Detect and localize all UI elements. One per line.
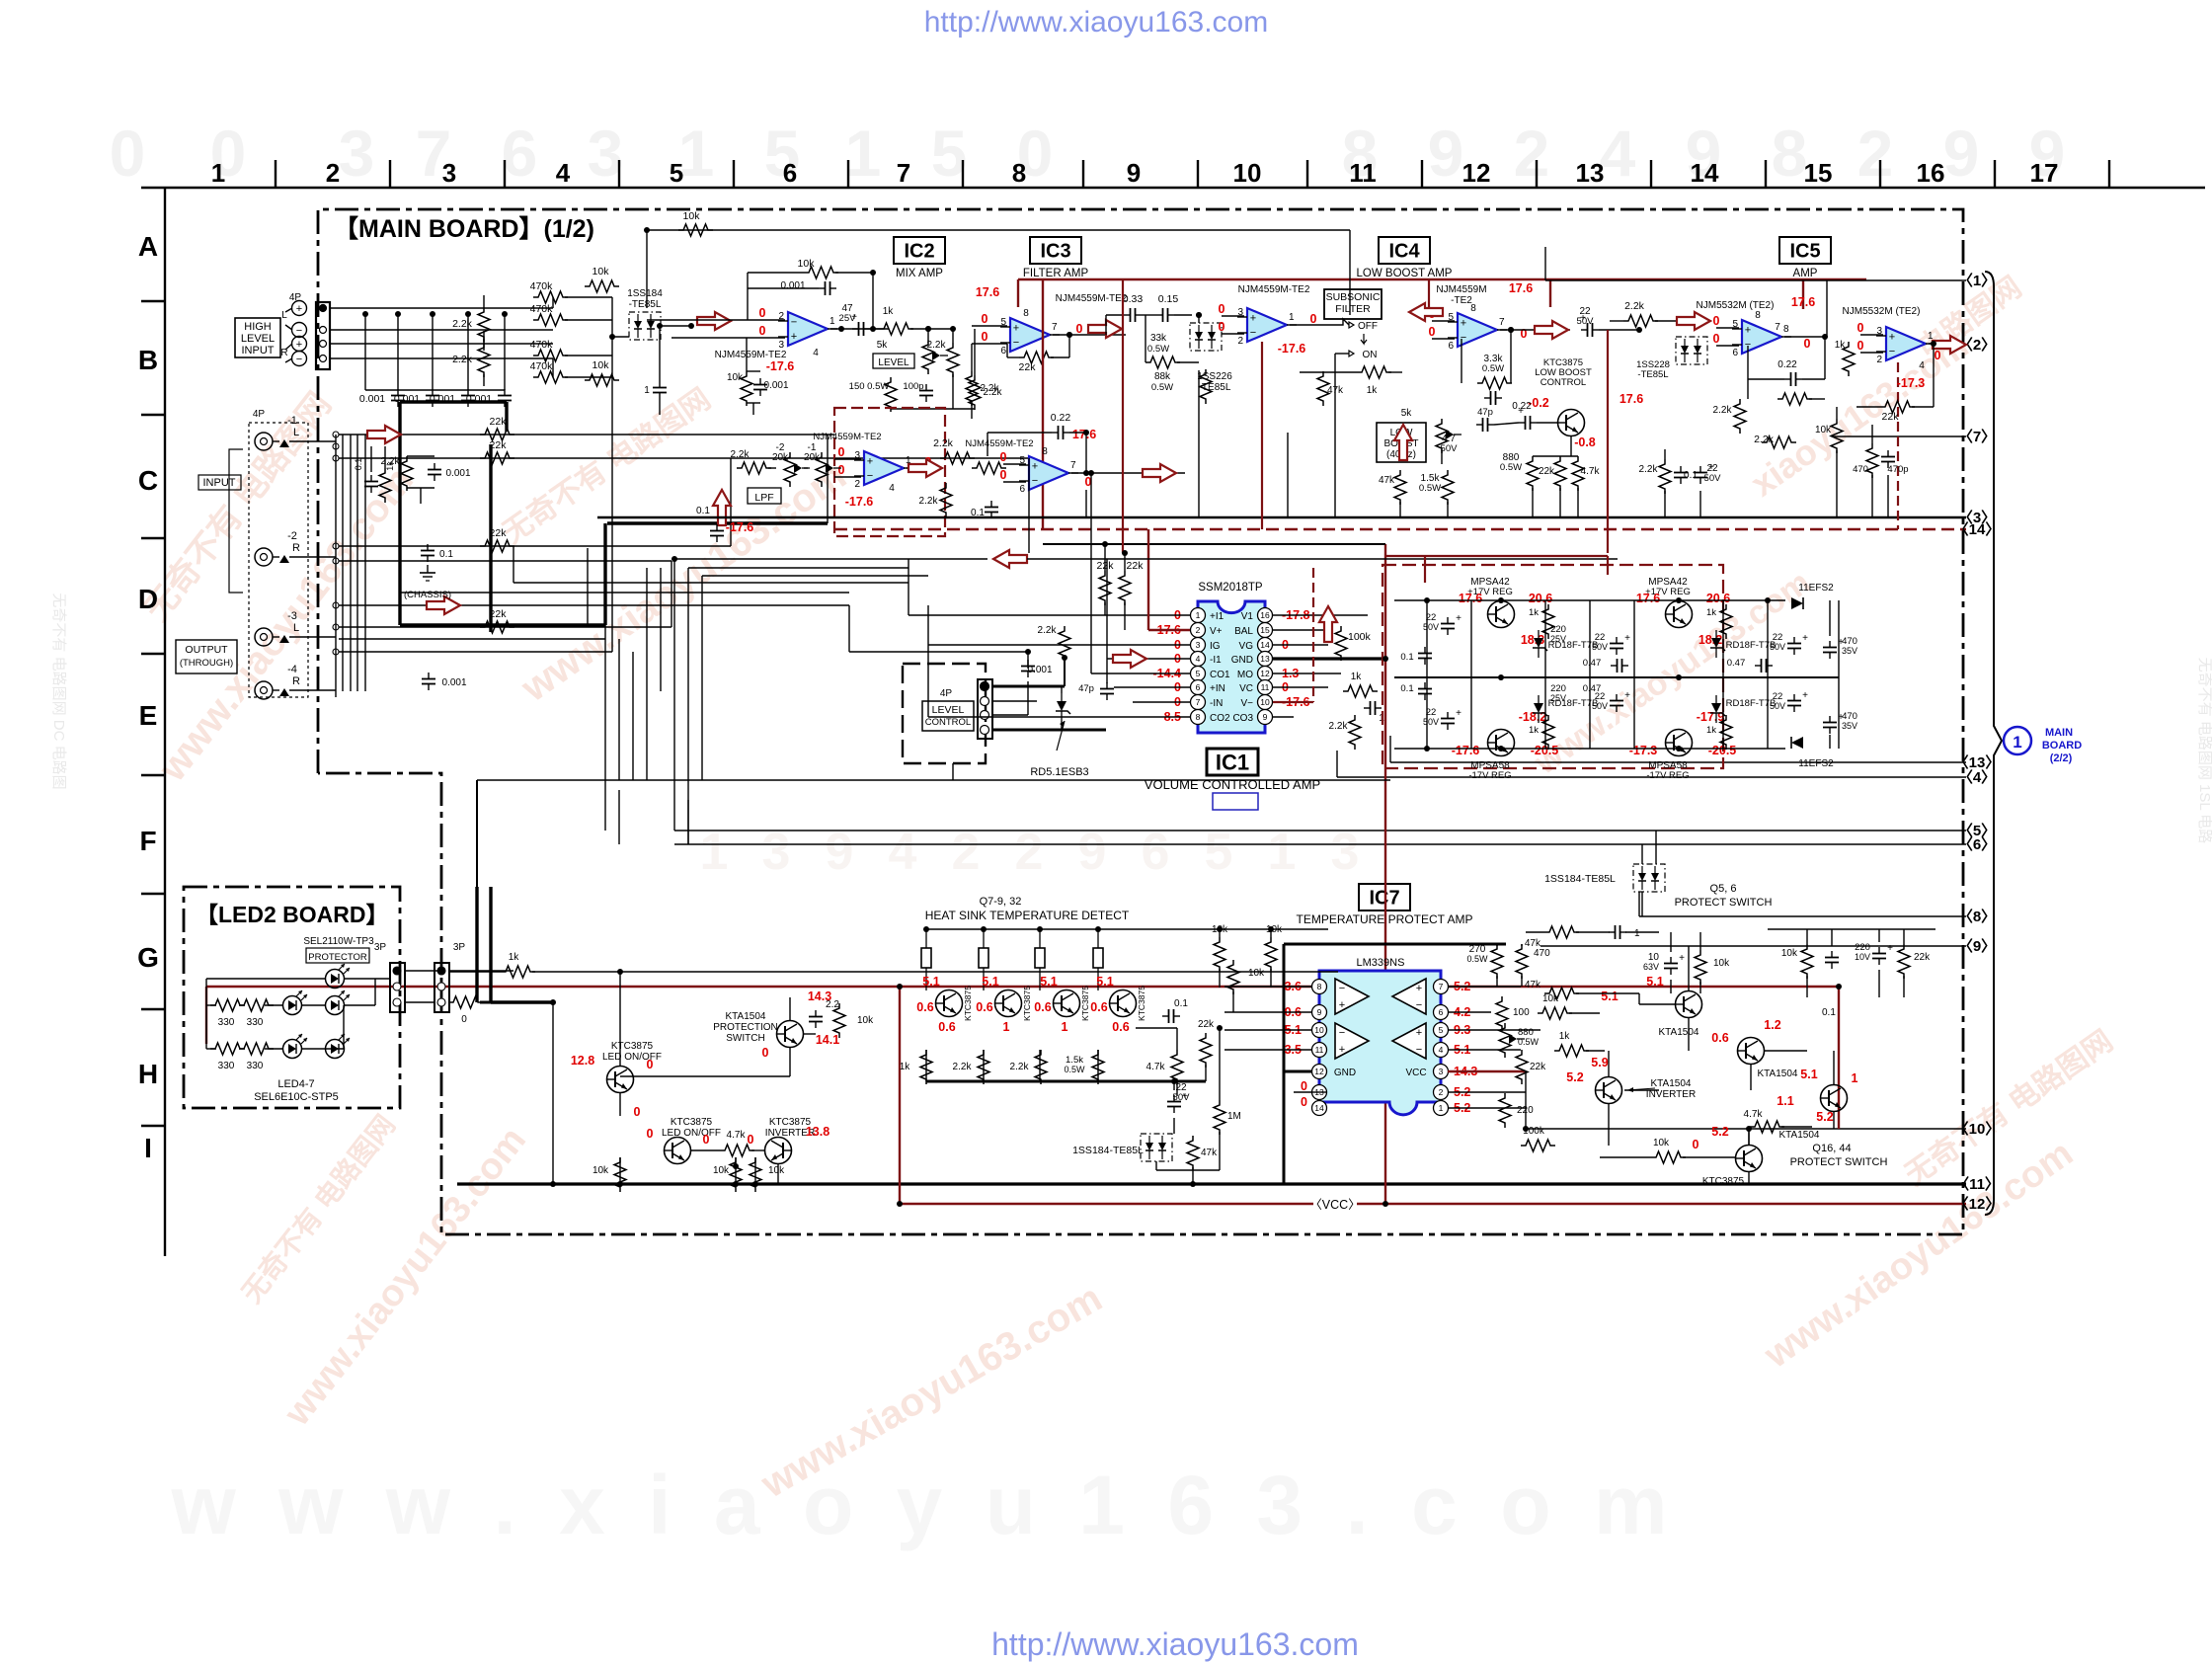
voltage label 0 bbox=[1174, 695, 1181, 709]
svg-text:1: 1 bbox=[211, 158, 225, 188]
wire bbox=[873, 328, 879, 330]
resistor 10k bbox=[1801, 944, 1813, 979]
svg-text:11: 11 bbox=[1315, 1045, 1324, 1055]
wire bbox=[619, 1093, 621, 1116]
svg-text:KTC3875: KTC3875 bbox=[1080, 986, 1090, 1021]
svg-text:5.9: 5.9 bbox=[1591, 1056, 1608, 1069]
wire bbox=[687, 568, 689, 800]
svg-text:2.2k: 2.2k bbox=[927, 340, 947, 351]
wire bbox=[747, 273, 749, 320]
transistor KTC3875 inverter bbox=[765, 1138, 792, 1164]
signal arrow bbox=[427, 596, 460, 614]
svg-text:1k: 1k bbox=[1351, 672, 1363, 682]
svg-text:SEL2110W-TP3: SEL2110W-TP3 bbox=[303, 936, 374, 947]
header pin bbox=[333, 649, 339, 655]
capacitor 22/50V bbox=[1447, 617, 1449, 624]
svg-text:〈7〉: 〈7〉 bbox=[1958, 428, 1996, 445]
junction bbox=[733, 1181, 739, 1187]
svg-text:4: 4 bbox=[556, 158, 571, 188]
svg-text:LEVEL: LEVEL bbox=[241, 333, 275, 345]
svg-text:47k: 47k bbox=[1525, 980, 1541, 990]
wire bbox=[1222, 315, 1244, 317]
wire bbox=[768, 467, 776, 469]
svg-text:RD18F-T7B: RD18F-T7B bbox=[1726, 640, 1777, 651]
wire bbox=[1871, 425, 1873, 443]
junction bbox=[1676, 674, 1682, 680]
svg-text:470k: 470k bbox=[530, 280, 554, 292]
resistor 2.2k bbox=[1035, 1050, 1047, 1084]
svg-text:2.2k: 2.2k bbox=[1010, 1062, 1030, 1072]
svg-text:CONTROL: CONTROL bbox=[1540, 377, 1586, 388]
wire bbox=[747, 370, 760, 372]
wire bbox=[565, 319, 612, 321]
svg-text:+: + bbox=[1889, 332, 1895, 344]
wire bbox=[339, 457, 1029, 459]
wire bbox=[489, 444, 492, 632]
junction bbox=[1498, 746, 1504, 752]
resistor 2.2k bbox=[966, 371, 978, 406]
wire bbox=[301, 1048, 344, 1050]
svg-text:-TE85L: -TE85L bbox=[1637, 369, 1668, 380]
wire bbox=[1273, 644, 1328, 646]
svg-text:-17.6: -17.6 bbox=[1278, 342, 1306, 356]
capacitor 0.1 bbox=[427, 544, 429, 551]
voltage label 0 bbox=[925, 455, 932, 469]
wire bbox=[364, 314, 366, 390]
junction bbox=[1498, 674, 1504, 680]
header pin bbox=[333, 624, 339, 630]
svg-text:0.6: 0.6 bbox=[976, 1000, 992, 1014]
capacitor 22/50V bbox=[1173, 1095, 1175, 1102]
voltage label 0 bbox=[838, 445, 845, 459]
wire bbox=[1570, 436, 1572, 456]
svg-text:−: − bbox=[791, 317, 797, 329]
wire bbox=[407, 455, 434, 457]
diode pair 1SS184-TE85L bbox=[1633, 864, 1665, 892]
resistor 10k bbox=[750, 1157, 761, 1192]
svg-text:0.6: 0.6 bbox=[916, 1000, 933, 1014]
diode pair 1SS228-TE85L bbox=[1676, 337, 1707, 364]
svg-text:BAL: BAL bbox=[1234, 626, 1253, 637]
svg-text:8: 8 bbox=[1755, 310, 1761, 321]
wire bbox=[339, 545, 731, 547]
potentiometer 880 bbox=[1499, 1023, 1511, 1058]
wire bbox=[397, 314, 399, 390]
voltage label 0 bbox=[1085, 475, 1092, 489]
wire bbox=[789, 997, 791, 1020]
op-amp IC4a NJM4559M-TE2 bbox=[1247, 308, 1287, 342]
wire bbox=[1097, 1050, 1099, 1081]
svg-text:17.6: 17.6 bbox=[1636, 592, 1660, 605]
svg-text:1M: 1M bbox=[1227, 1111, 1241, 1122]
svg-text:330: 330 bbox=[247, 1061, 264, 1071]
wire bbox=[646, 568, 648, 780]
capacitor 0.47 bbox=[1755, 665, 1762, 667]
svg-text:2: 2 bbox=[1876, 355, 1882, 365]
wire bbox=[1722, 600, 1724, 677]
junction bbox=[752, 1181, 758, 1187]
wire bbox=[647, 229, 1350, 231]
svg-text:1: 1 bbox=[700, 824, 729, 881]
wire bbox=[1525, 1071, 1527, 1129]
svg-text:22k: 22k bbox=[490, 608, 508, 620]
capacitor bbox=[1364, 707, 1371, 709]
LED SEL6E10C bbox=[326, 1040, 345, 1059]
wire bbox=[1334, 387, 1336, 517]
svg-text:w w w . x i a o y u 1 6 3 . c: w w w . x i a o y u 1 6 3 . c o m bbox=[170, 1459, 1677, 1551]
voltage label 5.2 bbox=[1454, 1085, 1470, 1099]
svg-text:2.2k: 2.2k bbox=[1329, 721, 1349, 732]
svg-text:1k: 1k bbox=[1706, 607, 1716, 618]
voltage label 0.6 bbox=[1112, 1020, 1129, 1034]
resistor 22k bbox=[480, 429, 514, 440]
junction bbox=[1931, 341, 1936, 347]
svg-text:9: 9 bbox=[1428, 117, 1464, 190]
capacitor bbox=[1616, 637, 1618, 644]
wire bbox=[330, 329, 553, 331]
voltage label 0 bbox=[1219, 320, 1225, 334]
wire bbox=[611, 297, 613, 377]
svg-text:50V: 50V bbox=[1592, 642, 1608, 652]
svg-text:10: 10 bbox=[1260, 697, 1270, 707]
voltage label 0 bbox=[748, 1133, 754, 1147]
svg-text:-0.8: -0.8 bbox=[1574, 436, 1596, 449]
junction bbox=[1025, 649, 1031, 655]
transistor MPSA58 -17V REG bbox=[1488, 730, 1515, 756]
wire bbox=[1500, 329, 1570, 331]
capacitor 0.1 bbox=[1680, 466, 1682, 473]
wire bbox=[1608, 1051, 1610, 1076]
wire bbox=[206, 978, 326, 980]
input terminal 4 bbox=[292, 352, 307, 366]
LED2 board outline bbox=[184, 887, 400, 1108]
junction bbox=[1171, 1078, 1177, 1084]
wire bbox=[673, 559, 675, 790]
signal arrow bbox=[1113, 650, 1146, 668]
IC7 designator bbox=[1359, 884, 1410, 911]
capacitor 220/10V bbox=[1878, 947, 1880, 954]
svg-text:1: 1 bbox=[829, 316, 835, 327]
voltage label 0.6 bbox=[1090, 1000, 1107, 1014]
wire bbox=[687, 800, 689, 844]
junction bbox=[609, 334, 615, 340]
svg-text:2: 2 bbox=[1514, 117, 1550, 190]
wire bbox=[908, 559, 909, 615]
wire bbox=[1871, 475, 1873, 517]
junction bbox=[1083, 470, 1089, 476]
wire bbox=[1283, 944, 1286, 1185]
svg-text:R: R bbox=[292, 675, 300, 687]
wire bbox=[1426, 600, 1428, 677]
wire bbox=[1051, 356, 1069, 358]
svg-text:−: − bbox=[1339, 983, 1345, 994]
wire bbox=[612, 336, 629, 338]
resistor 22k bbox=[1554, 456, 1566, 491]
svg-text:0: 0 bbox=[1000, 468, 1007, 482]
svg-text:−: − bbox=[1013, 337, 1019, 349]
wire bbox=[1860, 352, 1883, 354]
maroon dashed bus to <14> bbox=[834, 528, 1966, 530]
svg-text:5.2: 5.2 bbox=[1816, 1110, 1833, 1124]
svg-text:0: 0 bbox=[1693, 1138, 1699, 1151]
voltage label 1 bbox=[1852, 1071, 1858, 1085]
junction bbox=[1508, 327, 1514, 333]
svg-text:0.5W: 0.5W bbox=[1419, 483, 1441, 494]
wire bbox=[1589, 600, 1591, 677]
decor bbox=[700, 824, 1360, 881]
LED protector SEL2110W-TP3 bbox=[326, 970, 345, 989]
voltage label 5.1 bbox=[1454, 1043, 1470, 1057]
wire bbox=[1838, 987, 1840, 1126]
wire bbox=[1198, 370, 1200, 517]
OUTPUT THROUGH box bbox=[176, 640, 237, 673]
svg-text:5: 5 bbox=[670, 158, 683, 188]
wire bbox=[1521, 944, 1523, 946]
svg-text:IC5: IC5 bbox=[1789, 241, 1820, 263]
svg-text:10k: 10k bbox=[1713, 958, 1730, 969]
wire bbox=[420, 488, 422, 504]
wire bbox=[1290, 324, 1335, 326]
svg-text:17.6: 17.6 bbox=[1619, 392, 1643, 406]
svg-text:4.7k: 4.7k bbox=[1146, 1062, 1166, 1072]
junction bbox=[1822, 334, 1828, 340]
voltage label 20.6 bbox=[1529, 592, 1552, 605]
voltage label 5.1 bbox=[1040, 975, 1057, 989]
svg-text:CO1: CO1 bbox=[1210, 670, 1230, 680]
svg-text:88k: 88k bbox=[1154, 371, 1171, 382]
wire bbox=[350, 435, 352, 691]
svg-text:10k: 10k bbox=[768, 1165, 785, 1176]
wire bbox=[618, 790, 620, 844]
resistor 10k bbox=[730, 1157, 742, 1192]
svg-text:13.8: 13.8 bbox=[806, 1125, 829, 1139]
wire bbox=[206, 1048, 216, 1050]
svg-text:+: + bbox=[1745, 325, 1751, 337]
svg-text:330: 330 bbox=[247, 1017, 264, 1028]
svg-text:+: + bbox=[296, 339, 302, 351]
maroon wire bbox=[1607, 556, 1609, 575]
svg-text:+: + bbox=[1250, 313, 1256, 325]
wire bbox=[1312, 1091, 1327, 1093]
resistor 1k bbox=[1720, 715, 1732, 750]
wire bbox=[1222, 333, 1244, 335]
svg-text:+: + bbox=[1624, 633, 1630, 644]
wire bbox=[1273, 686, 1328, 688]
wire bbox=[1521, 976, 1523, 987]
svg-text:6: 6 bbox=[1019, 484, 1025, 495]
svg-text:0.15: 0.15 bbox=[1158, 293, 1179, 305]
comparator IC7 bbox=[1392, 979, 1426, 1014]
wire bbox=[1699, 982, 1701, 993]
svg-text:17.6: 17.6 bbox=[1459, 592, 1482, 605]
voltage label 0.6 bbox=[1285, 1005, 1302, 1019]
transistor KTC3875 low boost control bbox=[1558, 410, 1585, 436]
wire bbox=[1027, 681, 1029, 715]
wire bbox=[1448, 1091, 1526, 1093]
resistor 470 bbox=[1516, 944, 1528, 979]
wire bbox=[1219, 1028, 1221, 1100]
svg-text:4: 4 bbox=[1196, 654, 1201, 664]
junction bbox=[550, 1181, 556, 1187]
capacitor 10/63V bbox=[1670, 957, 1672, 964]
wire bbox=[1224, 986, 1312, 988]
wire bbox=[1806, 976, 1808, 997]
signal arrow bbox=[993, 550, 1027, 568]
signal arrow bbox=[1677, 312, 1710, 330]
junction bbox=[395, 311, 401, 317]
voltage label 0 bbox=[838, 463, 845, 477]
IC1 value box bbox=[1213, 793, 1258, 810]
wire bbox=[505, 402, 508, 432]
voltage label 0.6 bbox=[1034, 1000, 1051, 1014]
svg-text:〈4〉: 〈4〉 bbox=[1958, 768, 1996, 786]
wire bbox=[1784, 336, 1827, 338]
svg-text:0.001: 0.001 bbox=[763, 380, 788, 391]
svg-text:GND: GND bbox=[1231, 655, 1253, 666]
junction bbox=[671, 556, 677, 562]
wire bbox=[1003, 481, 1026, 483]
svg-text:12.8: 12.8 bbox=[571, 1054, 594, 1068]
voltage label 5.2 bbox=[1711, 1125, 1728, 1139]
svg-text:9: 9 bbox=[826, 824, 854, 881]
svg-text:6: 6 bbox=[783, 158, 797, 188]
wire bbox=[1232, 991, 1234, 1012]
svg-text:16: 16 bbox=[1260, 610, 1270, 620]
svg-text:2: 2 bbox=[326, 158, 340, 188]
svg-text:5: 5 bbox=[1196, 669, 1201, 678]
wire bbox=[1860, 334, 1883, 336]
IC2 designator bbox=[894, 237, 945, 264]
wire bbox=[1683, 1156, 1735, 1158]
wire bbox=[330, 343, 553, 345]
wire bbox=[1549, 279, 1551, 307]
RCA jack -1 bbox=[255, 433, 273, 450]
svg-text:1SS184: 1SS184 bbox=[627, 288, 663, 299]
wire bbox=[1767, 600, 1769, 677]
wire bbox=[1287, 433, 1289, 517]
wire bbox=[1064, 658, 1066, 686]
wire bbox=[1802, 279, 1804, 309]
wire bbox=[1496, 944, 1498, 946]
wire bbox=[1441, 450, 1443, 464]
wire bbox=[289, 556, 336, 558]
svg-text:25V: 25V bbox=[1550, 693, 1566, 703]
svg-text:+: + bbox=[1456, 613, 1461, 624]
junction bbox=[688, 323, 694, 329]
resistor 1k bbox=[1357, 366, 1391, 378]
svg-text:0.1: 0.1 bbox=[439, 549, 453, 560]
wire bbox=[673, 790, 675, 831]
voltage label 5.2 bbox=[1816, 1110, 1833, 1124]
svg-text:1k: 1k bbox=[385, 461, 395, 471]
svg-text:8: 8 bbox=[1317, 982, 1322, 991]
resistor 330 bbox=[210, 999, 245, 1011]
svg-text:0.6: 0.6 bbox=[1112, 1020, 1129, 1034]
svg-text:1.2: 1.2 bbox=[1764, 1018, 1780, 1032]
svg-text:−: − bbox=[296, 325, 302, 337]
resistor 4.7k bbox=[1750, 1121, 1784, 1133]
svg-text:1: 1 bbox=[2013, 733, 2021, 752]
voltage label 0 bbox=[1693, 1138, 1699, 1151]
svg-text:22k: 22k bbox=[490, 439, 508, 451]
wire bbox=[1224, 1011, 1312, 1013]
wire bbox=[1589, 677, 1591, 749]
svg-text:LEVEL: LEVEL bbox=[878, 357, 909, 368]
svg-text:22k: 22k bbox=[1198, 1019, 1215, 1030]
pin 8 bbox=[1191, 710, 1206, 725]
voltage label -20.5 bbox=[1531, 744, 1559, 757]
svg-text:-17.6: -17.6 bbox=[726, 520, 754, 534]
svg-text:6: 6 bbox=[1732, 348, 1738, 358]
voltage label 14.3 bbox=[1454, 1065, 1477, 1078]
voltage label 0 bbox=[647, 1127, 654, 1141]
junction bbox=[1066, 332, 1072, 338]
svg-text:0: 0 bbox=[982, 312, 988, 326]
svg-text:10k: 10k bbox=[857, 1015, 874, 1026]
wire bbox=[400, 400, 507, 403]
switch OFF contact bbox=[1335, 319, 1349, 325]
svg-text:1SS184-TE85L: 1SS184-TE85L bbox=[1544, 873, 1616, 885]
wire bbox=[475, 887, 478, 1002]
svg-text:MO: MO bbox=[1237, 670, 1253, 680]
svg-text:1: 1 bbox=[1439, 1103, 1444, 1113]
wire bbox=[330, 307, 553, 309]
svg-text:2.2k: 2.2k bbox=[981, 383, 1000, 394]
wire bbox=[407, 487, 434, 489]
wire bbox=[1750, 1065, 1752, 1090]
svg-text:无奇不有 电路图网 DC 电路图: 无奇不有 电路图网 DC 电路图 bbox=[50, 593, 67, 789]
svg-text:E: E bbox=[139, 700, 158, 731]
svg-text:5.1: 5.1 bbox=[1646, 975, 1663, 989]
header pin bbox=[333, 432, 339, 437]
svg-text:0: 0 bbox=[1310, 312, 1317, 326]
wire bbox=[1633, 677, 1635, 749]
wire bbox=[504, 314, 506, 390]
wire bbox=[480, 1001, 553, 1004]
svg-text:0: 0 bbox=[1521, 327, 1528, 341]
svg-text:-17.3: -17.3 bbox=[1629, 744, 1658, 757]
wire bbox=[273, 556, 279, 558]
wire bbox=[747, 402, 760, 404]
svg-text:HIGH: HIGH bbox=[244, 321, 272, 333]
svg-text:8: 8 bbox=[1772, 117, 1808, 190]
svg-text:-3: -3 bbox=[287, 610, 297, 622]
svg-text:1: 1 bbox=[1852, 1071, 1858, 1085]
voltage label 0 bbox=[1310, 312, 1317, 326]
svg-text:0: 0 bbox=[759, 324, 766, 338]
svg-text:5.2: 5.2 bbox=[1566, 1070, 1583, 1084]
svg-text:(THROUGH): (THROUGH) bbox=[180, 658, 233, 669]
voltage label 0 bbox=[1857, 339, 1864, 353]
svg-text:7: 7 bbox=[1070, 460, 1076, 471]
wire bbox=[1091, 716, 1190, 718]
wire bbox=[646, 230, 648, 308]
resistor 1k bbox=[920, 1050, 932, 1084]
potentiometer 5k LEVEL bbox=[922, 340, 934, 374]
pin 5 bbox=[1191, 667, 1206, 681]
svg-text:17.6: 17.6 bbox=[1509, 281, 1533, 295]
svg-text:0: 0 bbox=[1429, 325, 1436, 339]
svg-text:AMP: AMP bbox=[1793, 268, 1818, 279]
voltage label 0 bbox=[1219, 302, 1225, 316]
capacitor bbox=[1616, 694, 1618, 701]
svg-text:KTA1504: KTA1504 bbox=[1779, 1130, 1820, 1141]
wire bbox=[265, 1004, 283, 1006]
level 4P connector bbox=[978, 679, 992, 739]
svg-text:7: 7 bbox=[1196, 697, 1201, 707]
resistor 10k bbox=[741, 371, 752, 406]
voltage label -20.5 bbox=[1708, 744, 1737, 757]
